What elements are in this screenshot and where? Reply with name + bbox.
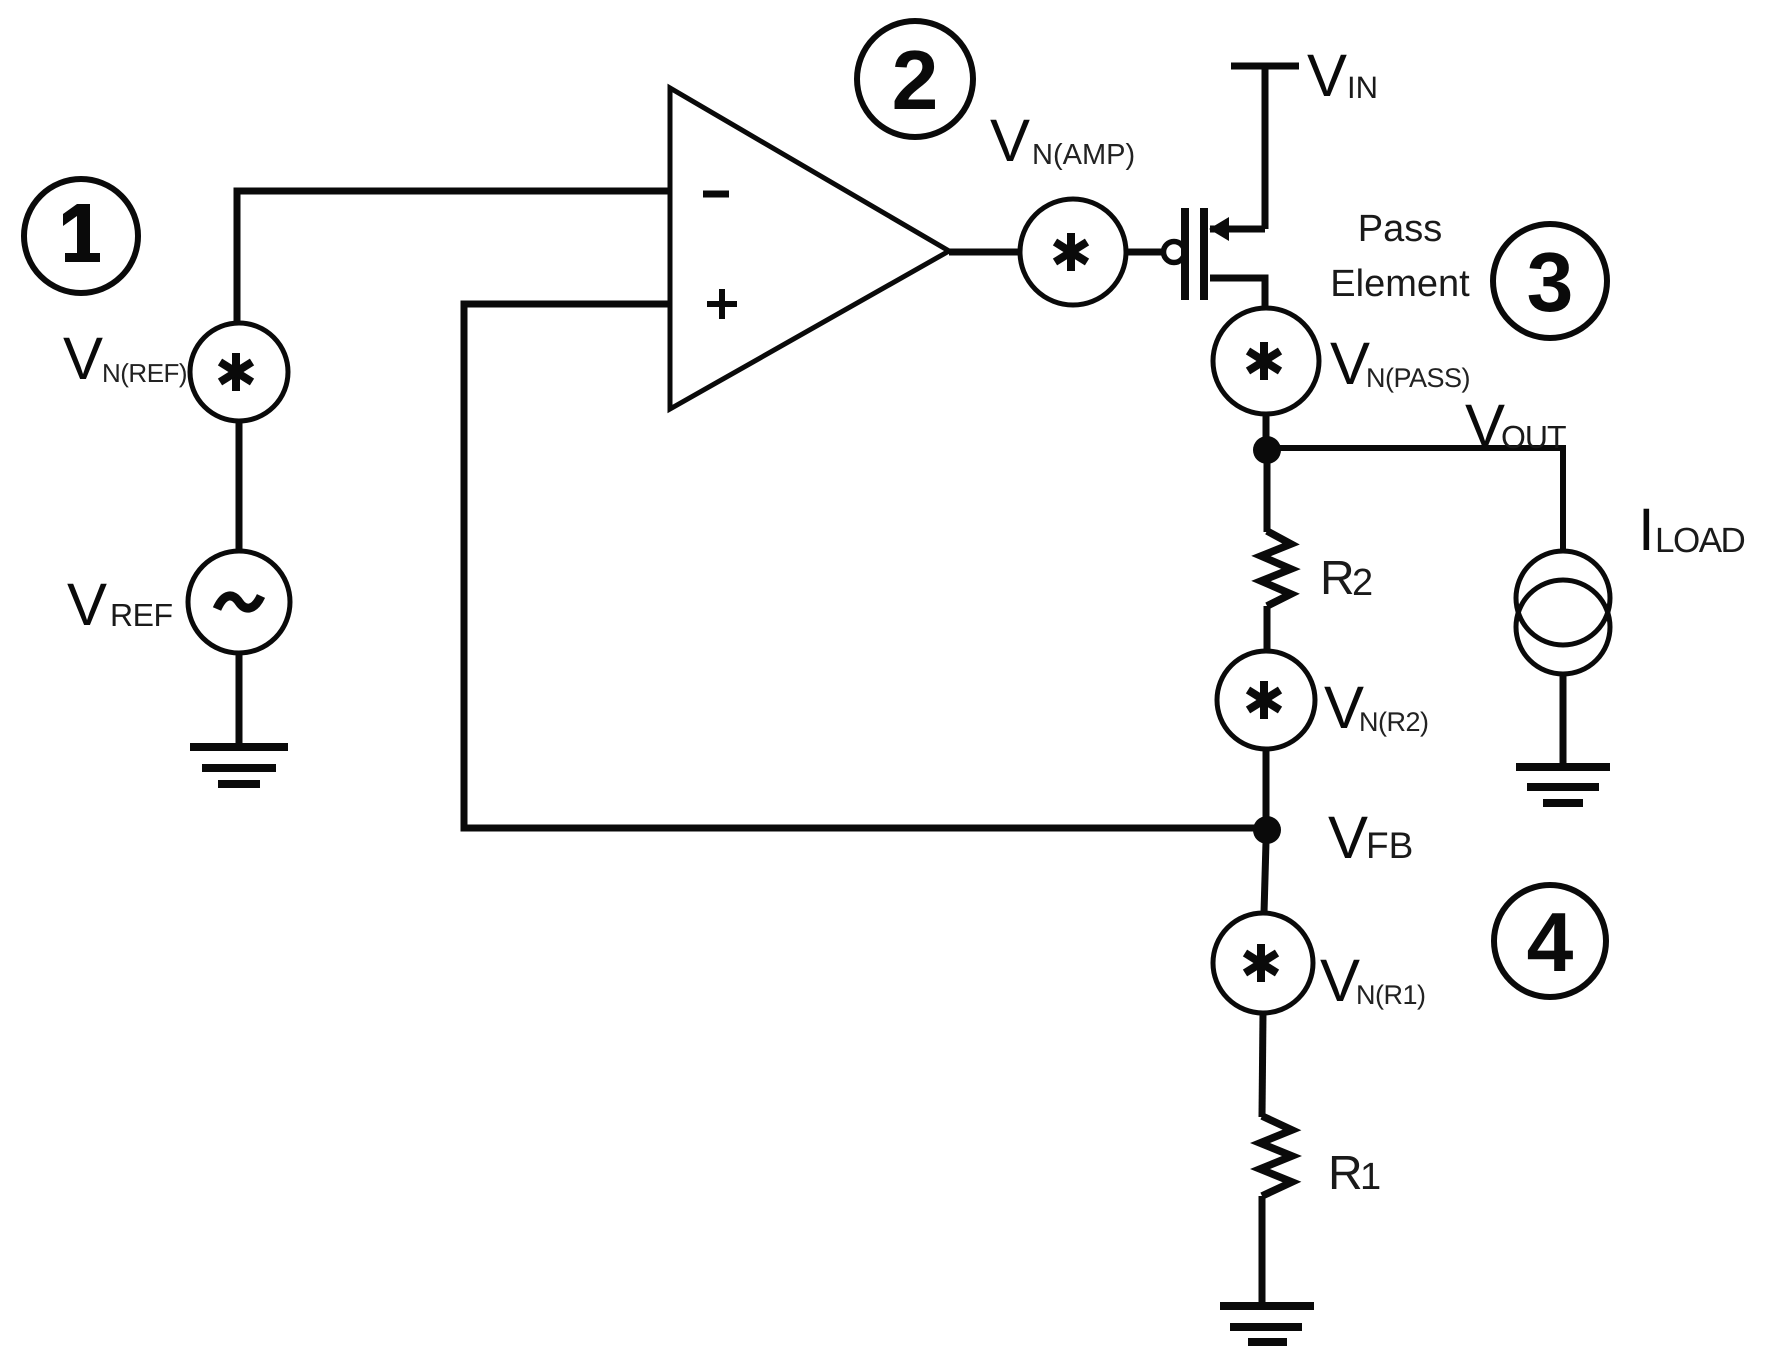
node-number circle 3 xyxy=(1493,224,1607,338)
svg-text:V: V xyxy=(1465,392,1505,459)
svg-text:V: V xyxy=(1307,42,1347,109)
label ILOAD xyxy=(1638,496,1745,563)
ground (reference) xyxy=(190,747,288,784)
svg-text:2: 2 xyxy=(892,33,939,127)
svg-text:IN: IN xyxy=(1347,70,1378,105)
svg-text:2: 2 xyxy=(1352,562,1373,604)
label R1 xyxy=(1328,1147,1381,1200)
label VIN xyxy=(1307,42,1378,109)
label Pass Element xyxy=(1330,208,1470,305)
svg-text:3: 3 xyxy=(1527,235,1574,329)
wire R2 to VN(R2) xyxy=(1264,606,1271,652)
resistor R2 xyxy=(1261,531,1291,606)
svg-text:LOAD: LOAD xyxy=(1655,521,1745,560)
current source ILOAD xyxy=(1516,551,1610,674)
wire VFB node to VN(R1) xyxy=(1264,842,1266,913)
label VREF xyxy=(67,571,173,638)
label VN(AMP) xyxy=(990,107,1135,174)
svg-text:V: V xyxy=(67,571,107,638)
wire VN(AMP) to gate xyxy=(1126,249,1163,256)
node-number circle 1 xyxy=(24,179,138,293)
node VOUT junction xyxy=(1253,436,1281,464)
wire R1 to ground xyxy=(1259,1196,1266,1305)
voltage source VREF xyxy=(188,551,290,653)
svg-text:1: 1 xyxy=(1360,1156,1381,1198)
label VN(PASS) xyxy=(1330,330,1470,397)
resistor R1 xyxy=(1260,1116,1292,1196)
wire VOUT to ILOAD xyxy=(1267,448,1563,552)
label VN(REF) xyxy=(63,325,187,392)
svg-text:4: 4 xyxy=(1527,895,1574,989)
noise source VN(REF) xyxy=(190,323,288,421)
wire VOUT node to R2 xyxy=(1264,450,1271,532)
noise source VN(R2) xyxy=(1217,651,1315,749)
noise source VN(PASS) xyxy=(1213,308,1319,414)
svg-text:Pass: Pass xyxy=(1358,208,1442,250)
svg-text:V: V xyxy=(1328,804,1368,871)
label VN(R1) xyxy=(1320,947,1426,1014)
noise source VN(AMP) xyxy=(1020,199,1126,305)
transistor Q1 pass element (PMOS) xyxy=(1164,208,1266,310)
node A (inverting input net from reference) wire xyxy=(237,191,668,323)
label VOUT xyxy=(1465,392,1566,459)
svg-text:N(AMP): N(AMP) xyxy=(1032,139,1135,171)
wire op-amp output xyxy=(949,249,1021,256)
svg-text:V: V xyxy=(1320,947,1360,1014)
svg-text:REF: REF xyxy=(110,597,173,633)
op-amp U1 xyxy=(670,88,949,409)
label VN(R2) xyxy=(1324,674,1429,741)
ground (ILOAD) xyxy=(1516,767,1610,803)
wire ILOAD to ground xyxy=(1560,674,1567,766)
svg-text:R: R xyxy=(1320,552,1355,605)
noise source VN(R1) xyxy=(1213,913,1313,1013)
svg-text:N(REF): N(REF) xyxy=(102,358,187,388)
svg-text:N(PASS): N(PASS) xyxy=(1366,363,1470,393)
svg-text:N(R2): N(R2) xyxy=(1359,707,1429,737)
ground (R1) xyxy=(1220,1306,1314,1342)
node VFB junction xyxy=(1253,816,1281,844)
power VIN xyxy=(1231,66,1299,229)
label R2 xyxy=(1320,552,1373,605)
wire VREF to ground xyxy=(236,653,243,746)
svg-text:OUT: OUT xyxy=(1501,419,1566,455)
label VFB xyxy=(1328,804,1413,871)
wire VN(PASS) to VOUT node xyxy=(1263,414,1270,440)
svg-text:Element: Element xyxy=(1330,263,1470,305)
wire VN(R2) to VFB node xyxy=(1263,749,1270,820)
svg-text:V: V xyxy=(990,107,1030,174)
svg-text:I: I xyxy=(1638,496,1655,563)
wire VN(R1) to R1 xyxy=(1262,1013,1263,1117)
node-number circle 4 xyxy=(1494,885,1606,997)
svg-text:V: V xyxy=(1330,330,1370,397)
svg-text:R: R xyxy=(1328,1147,1363,1200)
node-number circle 2 xyxy=(857,21,973,137)
wire VN(REF) to VREF xyxy=(236,421,243,552)
svg-text:FB: FB xyxy=(1366,825,1413,866)
svg-text:N(R1): N(R1) xyxy=(1356,980,1426,1010)
svg-text:V: V xyxy=(63,325,103,392)
feedback wire (VFB to non-inverting input) xyxy=(464,304,1267,828)
